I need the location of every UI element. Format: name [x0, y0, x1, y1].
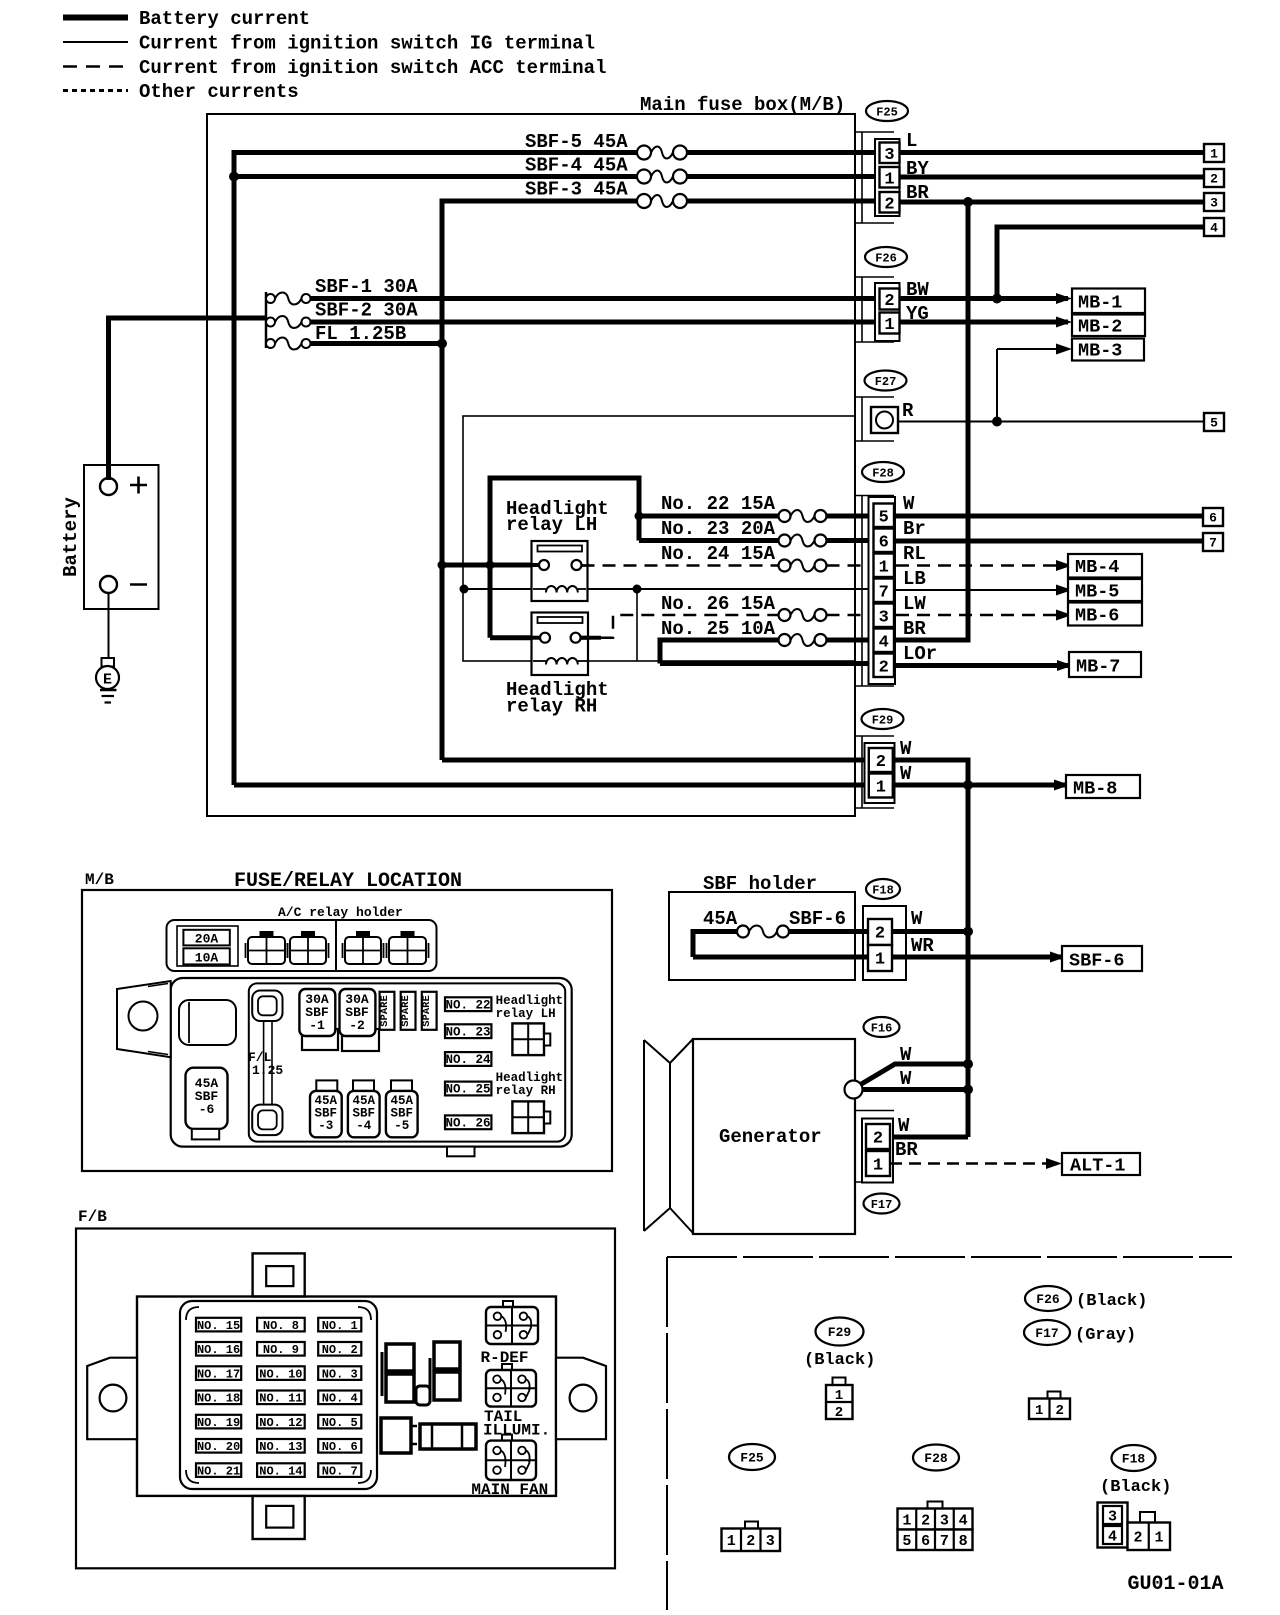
connector view F25 oval	[729, 1444, 775, 1470]
svg-text:SBF-2 30A: SBF-2 30A	[315, 300, 418, 322]
node 3	[1204, 193, 1224, 211]
svg-text:E: E	[103, 672, 112, 689]
svg-text:NO. 7: NO. 7	[322, 1465, 358, 1479]
svg-text:F28: F28	[924, 1451, 948, 1466]
svg-text:1: 1	[727, 1533, 736, 1550]
wire: No.22 to F28 pin 5	[827, 514, 872, 519]
svg-text:5: 5	[902, 1533, 911, 1550]
fuse No.22 15A	[779, 510, 827, 522]
connector view F17 pins	[1029, 1392, 1070, 1420]
svg-text:-3: -3	[318, 1119, 333, 1133]
spare fuse slot 3	[421, 992, 437, 1030]
svg-text:NO. 20: NO. 20	[197, 1440, 240, 1454]
svg-text:F18: F18	[1122, 1452, 1146, 1467]
svg-text:LB: LB	[903, 568, 926, 590]
svg-text:2: 2	[1056, 1403, 1064, 1419]
node 5	[1204, 413, 1224, 431]
generator output terminal	[845, 1081, 863, 1099]
svg-text:NO. 8: NO. 8	[263, 1319, 299, 1333]
wire: SBF-4 feed	[234, 174, 638, 179]
svg-text:W: W	[900, 738, 912, 760]
svg-text:NO. 5: NO. 5	[322, 1416, 358, 1430]
svg-text:W: W	[900, 763, 912, 785]
fuse SBF-6 45A	[737, 926, 789, 938]
10A fuse cell	[183, 948, 229, 965]
svg-text:MB-1: MB-1	[1078, 293, 1122, 314]
svg-text:NO. 15: NO. 15	[197, 1319, 240, 1333]
wire: relay RH output stub	[581, 636, 601, 640]
connector F17 oval	[864, 1194, 900, 1214]
fuse SBF-2	[266, 316, 311, 328]
fuse 30A SBF-1 (location)	[299, 989, 338, 1050]
svg-text:2: 2	[879, 658, 889, 677]
svg-text:No. 26 15A: No. 26 15A	[661, 593, 776, 615]
generator G1 body	[693, 1039, 855, 1234]
connector F16/F17 pins 2/1	[862, 1119, 893, 1183]
svg-text:NO. 9: NO. 9	[263, 1343, 299, 1357]
label: wire color R	[902, 400, 914, 422]
label: Headlight relay LH	[506, 498, 609, 536]
svg-text:Battery current: Battery current	[139, 8, 310, 30]
fuse slot NO. 7 (F/B)	[318, 1463, 361, 1478]
F/B top mounting tab	[253, 1253, 305, 1296]
fuse slot NO. 18 (F/B)	[196, 1391, 241, 1406]
label: Battery	[60, 497, 82, 577]
F/B left bracket	[87, 1358, 137, 1440]
M/B bottom foot	[447, 1147, 475, 1157]
fuse slot NO. 16 (F/B)	[196, 1342, 241, 1357]
svg-text:NO. 1: NO. 1	[322, 1319, 358, 1333]
svg-text:No. 23 20A: No. 23 20A	[661, 518, 776, 540]
wire: No.24 feed from relay LH (ACC dashed)	[582, 564, 779, 567]
svg-text:SPARE: SPARE	[400, 995, 412, 1027]
svg-text:F17: F17	[871, 1198, 893, 1212]
connector F18 outline	[863, 906, 906, 980]
F/B body	[137, 1297, 556, 1496]
fuse slot NO. 23	[445, 1024, 491, 1039]
label: wire color W F18	[911, 908, 923, 930]
wire: SBF-5 feed	[232, 150, 638, 155]
node 1	[1204, 144, 1224, 162]
svg-text:F29: F29	[872, 713, 894, 727]
svg-text:2: 2	[1210, 172, 1218, 187]
fuse slot NO. 11 (F/B)	[257, 1391, 305, 1406]
fuse slot NO. 19 (F/B)	[196, 1415, 241, 1430]
fuse slot NO. 17 (F/B)	[196, 1366, 241, 1381]
svg-text:3: 3	[940, 1512, 949, 1529]
20A fuse cell	[177, 926, 238, 966]
label: wire color YG	[906, 303, 929, 325]
wire: relay feed from FL vertical to relay LH pin	[442, 563, 540, 568]
node MB-8 box	[1066, 775, 1140, 800]
wire: LOr to MB-7	[896, 660, 1073, 671]
svg-text:GU01-01A: GU01-01A	[1128, 1573, 1224, 1596]
svg-text:MB-6: MB-6	[1075, 606, 1119, 627]
A/C relay socket 4	[387, 931, 429, 964]
generator mounting flange	[644, 1039, 693, 1233]
svg-text:3: 3	[766, 1533, 775, 1550]
label: Headlight relay RH	[506, 679, 609, 718]
SBF holder box	[669, 892, 855, 980]
connector view F18 oval	[1112, 1445, 1156, 1471]
wire: battery trunk vertical x=234	[232, 150, 237, 785]
svg-text:Current from ignition switch I: Current from ignition switch IG terminal	[139, 33, 595, 55]
svg-text:F28: F28	[872, 466, 894, 480]
legend: IG terminal label	[139, 33, 595, 55]
headlight relay inner box outline	[463, 416, 855, 661]
junction: coil line left	[460, 585, 469, 594]
wire: RL to MB-4 (dashed)	[896, 560, 1072, 571]
connector F16 oval	[864, 1017, 900, 1037]
svg-text:-2: -2	[349, 1018, 365, 1033]
fuse slot NO. 26	[445, 1115, 491, 1130]
node 4	[1204, 218, 1224, 236]
svg-text:MB-2: MB-2	[1078, 317, 1122, 338]
svg-text:relay RH: relay RH	[496, 1084, 556, 1098]
wire: No.22 feed	[639, 514, 779, 519]
label: SBF-1 30A	[315, 276, 418, 298]
wire: battery negative to ground	[102, 593, 115, 667]
label: R-DEF	[481, 1349, 529, 1367]
svg-text:4: 4	[879, 633, 889, 652]
svg-text:1.25: 1.25	[252, 1063, 283, 1078]
wire: No.26 to F28 pin 3 (dashed)	[827, 614, 872, 617]
legend: battery current line sample	[63, 15, 128, 21]
label: wire color BR F28	[903, 618, 926, 640]
label: (Black) F29	[804, 1351, 875, 1370]
svg-text:2: 2	[1133, 1530, 1142, 1547]
fuse slot NO. 5 (F/B)	[318, 1415, 361, 1430]
label: No. 25 10A	[661, 618, 776, 640]
junction: lower W joins trunk	[963, 1085, 973, 1095]
svg-text:1: 1	[873, 1157, 883, 1176]
M/B location outer box	[82, 890, 612, 1171]
svg-text:(Black): (Black)	[1076, 1292, 1147, 1311]
wire: generator W upper diagonal	[858, 1064, 968, 1086]
svg-text:F17: F17	[1035, 1326, 1058, 1341]
svg-text:2: 2	[876, 753, 886, 772]
connector view F29 oval	[816, 1318, 864, 1346]
svg-text:5: 5	[879, 508, 889, 527]
svg-text:Battery: Battery	[60, 497, 82, 577]
svg-text:MB-5: MB-5	[1075, 582, 1119, 603]
svg-text:(Black): (Black)	[804, 1351, 875, 1370]
wire: No.23 feed	[639, 538, 779, 543]
fuse 45A SBF-3 (location)	[310, 1080, 342, 1137]
fuse No.24 15A	[779, 560, 827, 572]
junction: No.22 tap	[635, 512, 644, 521]
wire: SBF-6 fuse to F18 pin 2	[789, 929, 868, 934]
pinout panel border	[667, 1257, 1232, 1610]
fuse slot NO. 10 (F/B)	[257, 1366, 305, 1381]
connector view F28 oval	[913, 1445, 959, 1471]
svg-text:7: 7	[940, 1533, 949, 1550]
R-DEF connector	[486, 1301, 538, 1344]
connector F25 pins 3/1/2	[875, 139, 900, 216]
label: TAIL ILLUMI.	[483, 1408, 550, 1440]
svg-text:4: 4	[1210, 221, 1218, 236]
svg-text:SBF-1 30A: SBF-1 30A	[315, 276, 418, 298]
wire: YG to MB-2	[899, 317, 1072, 328]
junction: FL joins vertical	[437, 339, 447, 349]
svg-text:F25: F25	[740, 1451, 764, 1466]
junction: trunk crosses MB-8 wire	[963, 780, 973, 790]
wire: FL to relay feed vertical	[311, 341, 443, 346]
label: 45A	[703, 908, 738, 930]
F/B fuse panel	[180, 1301, 377, 1489]
label: M/B	[85, 871, 114, 889]
wire: SBF-5 to F25 pin 3	[687, 150, 876, 155]
svg-text:1: 1	[884, 316, 894, 335]
wire: MB-3 branch from R wire	[997, 344, 1072, 422]
node MB-4 MB-5 MB-6 box	[1068, 554, 1142, 627]
connector F25 oval	[866, 101, 908, 121]
svg-text:1: 1	[902, 1512, 911, 1529]
svg-text:SBF-6: SBF-6	[1069, 951, 1125, 972]
label: No. 23 20A	[661, 518, 776, 540]
relay U2 headlight relay RH	[532, 613, 589, 676]
connector F18 pins 2/1	[868, 919, 892, 971]
junction: branch at relay LH pin wire	[486, 561, 495, 570]
svg-text:No. 25 10A: No. 25 10A	[661, 618, 776, 640]
svg-text:Main fuse box(M/B): Main fuse box(M/B)	[640, 94, 845, 116]
connector F27 oval	[865, 371, 907, 391]
junction: upper W joins trunk	[963, 1059, 973, 1069]
svg-text:A/C relay holder: A/C relay holder	[278, 905, 403, 920]
label: SBF holder	[703, 873, 817, 895]
svg-text:YG: YG	[906, 303, 929, 325]
svg-text:20A: 20A	[195, 932, 219, 947]
label: No. 22 15A	[661, 493, 776, 515]
svg-text:NO. 26: NO. 26	[445, 1116, 490, 1130]
label: SBF-3 45A	[525, 179, 628, 201]
svg-text:NO. 17: NO. 17	[197, 1368, 240, 1382]
svg-text:BW: BW	[906, 279, 929, 301]
svg-text:NO. 14: NO. 14	[259, 1465, 302, 1479]
svg-text:-1: -1	[309, 1018, 325, 1033]
svg-text:W: W	[903, 493, 915, 515]
svg-text:W: W	[900, 1044, 912, 1066]
wire: SBF-2 to F26 pin 1	[311, 320, 876, 325]
node MB-7 box	[1069, 652, 1141, 678]
svg-text:1: 1	[875, 951, 885, 970]
fusible link F/L 1.25	[252, 991, 282, 1136]
fuse slot NO. 2 (F/B)	[318, 1342, 361, 1357]
wire: relay feed down to relay RH pin	[490, 565, 541, 638]
fuse slot NO. 4 (F/B)	[318, 1391, 361, 1406]
svg-text:M/B: M/B	[85, 871, 114, 889]
svg-text:MB-8: MB-8	[1073, 779, 1117, 800]
fuse slot NO. 24	[445, 1052, 491, 1067]
wire: F29 pin1 W feed from battery trunk	[234, 783, 869, 788]
F/B bottom mounting tab	[253, 1496, 305, 1539]
wire: node 4 branch	[997, 225, 1204, 299]
connector view F28 pins	[898, 1502, 973, 1551]
label: wire color W F29 pin1	[900, 763, 912, 785]
fuse slot NO. 25	[445, 1082, 491, 1097]
connector F28 pins 5/6/1/7/3/4/2	[869, 497, 896, 684]
fuse No.25 10A	[779, 634, 827, 646]
F/B relay footprint C	[416, 1386, 430, 1405]
label: Generator	[719, 1126, 822, 1148]
A/C relay socket 1	[246, 931, 288, 964]
F/B relay footprint B	[430, 1342, 460, 1400]
fuse 45A SBF-4 (location)	[348, 1080, 380, 1137]
svg-text:NO. 19: NO. 19	[197, 1416, 240, 1430]
svg-text:(Gray): (Gray)	[1075, 1326, 1136, 1345]
fuse 30A SBF-2 (location)	[340, 989, 380, 1051]
fuse slot NO. 8 (F/B)	[257, 1318, 305, 1333]
svg-text:NO. 11: NO. 11	[259, 1392, 302, 1406]
label: wire color BR gen pin1	[895, 1139, 918, 1161]
F/B right bracket	[556, 1358, 606, 1440]
svg-text:1: 1	[1035, 1403, 1043, 1419]
label: F/L 1.25	[248, 1050, 283, 1078]
label: SBF-5 45A	[525, 131, 628, 153]
fuse slot NO. 6 (F/B)	[318, 1439, 361, 1454]
legend: IG terminal line sample	[63, 41, 128, 43]
headlight relay LH socket	[512, 1023, 550, 1055]
label: Headlight relay RH (location)	[496, 1071, 564, 1098]
svg-text:6: 6	[921, 1533, 930, 1550]
svg-text:F26: F26	[875, 251, 897, 265]
wire: No.25 fuse to F28 pin 4	[827, 638, 872, 643]
svg-text:W: W	[911, 908, 923, 930]
wire: relay feed riser and branch to fuses 22/23	[488, 476, 640, 568]
battery B1	[84, 465, 159, 609]
svg-text:NO. 13: NO. 13	[259, 1440, 302, 1454]
wire: BR to node 3	[899, 200, 1204, 205]
svg-text:Generator: Generator	[719, 1126, 822, 1148]
wire: SBF-4 to F25 pin 1	[687, 174, 876, 179]
label: wire color W F28	[903, 493, 915, 515]
connector view F29 pins	[826, 1378, 853, 1422]
wire: No.26 feed from relay RH (dashed)	[601, 615, 779, 638]
svg-text:7: 7	[879, 583, 889, 602]
junction: relay feed tap on vertical	[438, 561, 447, 570]
svg-text:Headlight: Headlight	[496, 994, 564, 1008]
svg-text:NO. 21: NO. 21	[197, 1465, 240, 1479]
svg-text:MAIN FAN: MAIN FAN	[471, 1481, 548, 1499]
label: wire color BR	[906, 182, 929, 204]
label: SBF-6	[789, 908, 846, 930]
label: F/B	[78, 1208, 107, 1226]
wire: F29 pin2 W to trunk	[894, 758, 968, 763]
svg-text:L: L	[906, 130, 917, 152]
MAIN FAN connector	[486, 1435, 536, 1480]
A/C relay socket 2	[288, 931, 329, 964]
connector strip cell borders	[854, 132, 894, 1182]
junction: SBF-4 tap	[229, 172, 239, 182]
junction: F18 W joins trunk	[963, 927, 973, 937]
wire: battery trunk down right side	[966, 202, 971, 640]
fuse slot NO. 15 (F/B)	[196, 1318, 241, 1333]
fuse SBF-5 45A	[637, 146, 687, 160]
connector F26 pins 2/1	[875, 283, 900, 341]
svg-text:W: W	[900, 1068, 912, 1090]
node ALT-1 box	[1062, 1153, 1140, 1177]
svg-text:SBF-3 45A: SBF-3 45A	[525, 179, 628, 201]
svg-text:3: 3	[879, 608, 889, 627]
svg-text:8: 8	[959, 1533, 968, 1550]
legend: other currents label	[139, 81, 299, 103]
svg-text:2: 2	[884, 195, 894, 214]
svg-text:1: 1	[879, 558, 889, 577]
fuse slot NO. 12 (F/B)	[257, 1415, 305, 1430]
fuse No.23 20A	[779, 535, 827, 547]
F/B outer box	[76, 1229, 615, 1569]
svg-text:6: 6	[1209, 511, 1217, 526]
connector F29 oval	[862, 709, 904, 729]
label: FUSE/RELAY LOCATION	[234, 870, 462, 893]
svg-text:2: 2	[835, 1405, 843, 1421]
svg-text:MB-7: MB-7	[1076, 657, 1120, 678]
junction: BR trunk tap	[963, 197, 973, 207]
svg-text:NO. 24: NO. 24	[445, 1053, 491, 1067]
connector F18 oval	[866, 879, 900, 899]
svg-text:relay LH: relay LH	[506, 514, 597, 536]
fuse group bus bar	[265, 292, 268, 348]
svg-text:NO. 25: NO. 25	[445, 1083, 490, 1097]
fuse slot NO. 20 (F/B)	[196, 1439, 241, 1454]
label: No. 24 15A	[661, 543, 776, 565]
node 2	[1204, 169, 1224, 187]
svg-text:No. 24 15A: No. 24 15A	[661, 543, 776, 565]
svg-text:NO. 4: NO. 4	[322, 1392, 358, 1406]
connector view F25 pins	[722, 1522, 781, 1552]
label: FL 1.25B	[315, 323, 406, 345]
wire: No.25 loop to F28 pin 2	[660, 638, 871, 664]
connector F28 oval	[862, 462, 904, 482]
label: (Black) F18	[1100, 1478, 1171, 1497]
wire: R to node 5	[898, 421, 1204, 423]
connector F27 terminal	[871, 407, 898, 433]
spare fuse slot 2	[400, 992, 416, 1030]
svg-text:NO. 18: NO. 18	[197, 1392, 240, 1406]
label: wire color Br F28	[903, 518, 926, 540]
svg-text:No. 22 15A: No. 22 15A	[661, 493, 776, 515]
connector F29 pins 2/1	[865, 743, 895, 803]
F/B relay footprint D	[381, 1418, 417, 1453]
M/B body outline	[171, 978, 572, 1147]
label: wire color W gen pin2	[898, 1115, 910, 1137]
svg-text:ALT-1: ALT-1	[1070, 1156, 1126, 1177]
svg-text:LOr: LOr	[903, 643, 937, 665]
wire: No.24 to F28 pin 1 (dashed)	[827, 564, 872, 567]
wire: feed to F29 pin 2	[442, 758, 869, 763]
svg-text:1: 1	[884, 170, 894, 189]
fuse No.26 15A	[779, 609, 827, 621]
M/B main connector	[179, 1000, 236, 1045]
svg-text:SBF-6: SBF-6	[789, 908, 846, 930]
svg-text:NO. 23: NO. 23	[445, 1025, 490, 1039]
svg-text:F29: F29	[828, 1325, 852, 1340]
connector F26 oval	[865, 247, 907, 267]
wire: W to node 6	[896, 514, 1203, 519]
svg-text:relay RH: relay RH	[506, 696, 597, 718]
wire: SBF-3 to F25 pin 2	[687, 199, 876, 204]
svg-text:2: 2	[884, 292, 894, 311]
fuse slot NO. 9 (F/B)	[257, 1342, 305, 1357]
legend: ACC terminal label	[139, 57, 606, 79]
svg-text:Other currents: Other currents	[139, 81, 299, 103]
svg-text:SPARE: SPARE	[379, 995, 391, 1027]
wire: RH coil loop right side	[636, 589, 638, 661]
label: Main fuse box(M/B)	[640, 94, 845, 116]
svg-text:NO. 2: NO. 2	[322, 1343, 358, 1357]
wire: lower trunk down to generator	[966, 758, 971, 1138]
svg-text:F25: F25	[876, 105, 898, 119]
